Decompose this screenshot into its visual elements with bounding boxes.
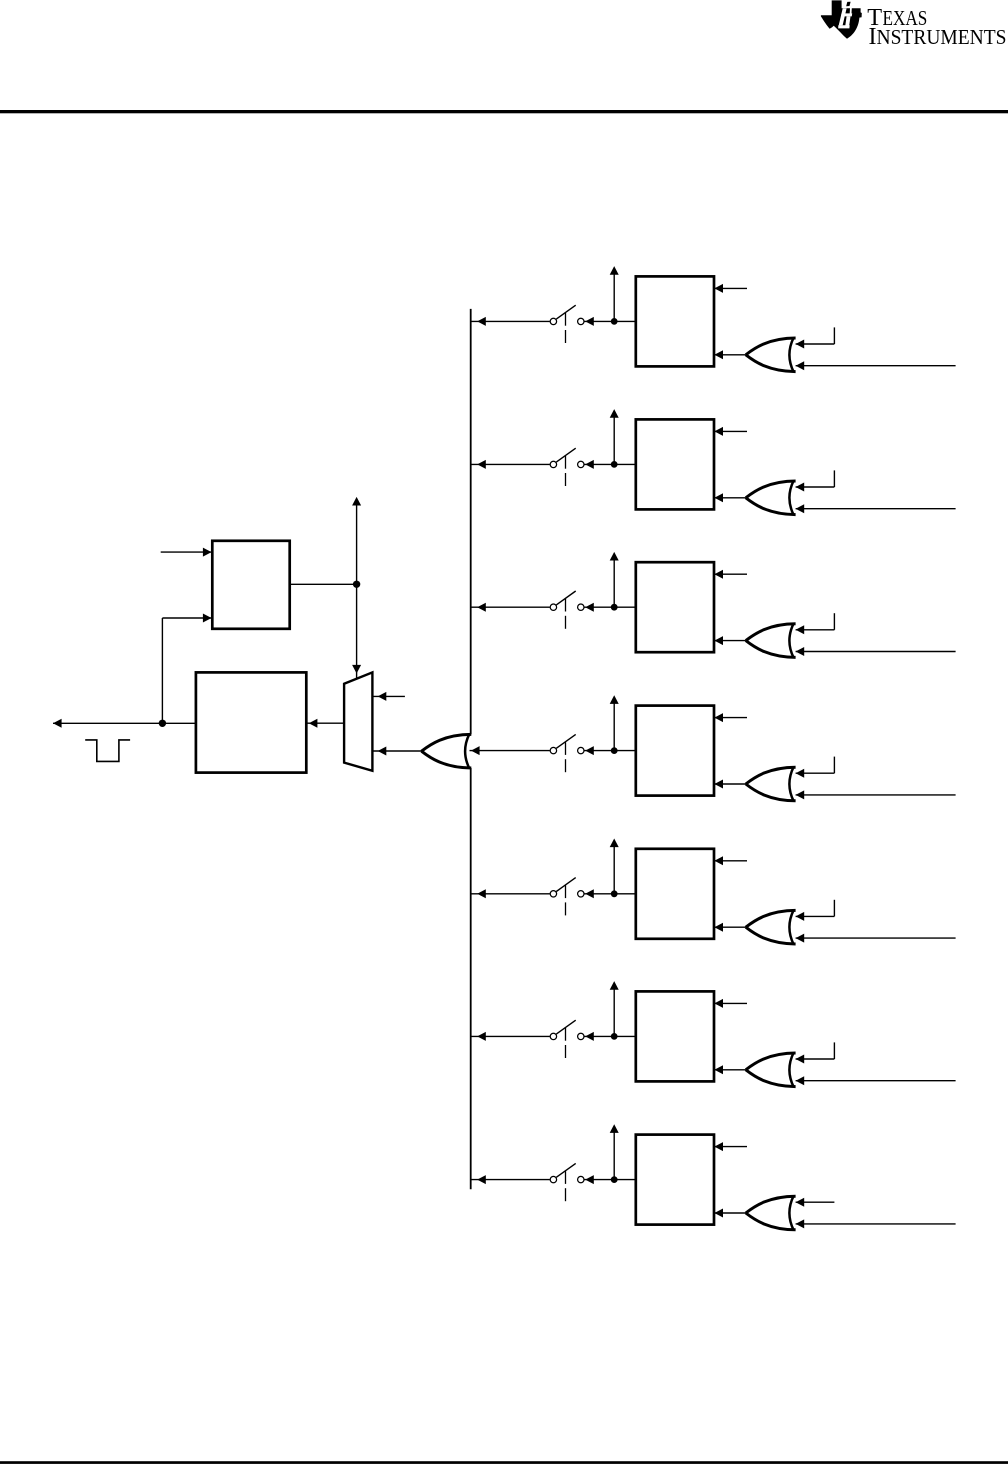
block: row 5 latch [636, 849, 714, 939]
block: row 7 latch [636, 1135, 714, 1225]
wire: row 6 latch output to switch [584, 1035, 635, 1037]
node: row 5 junction dot [611, 890, 618, 897]
wire: row 3 gate input A [796, 629, 835, 631]
switch SW4 contact circle (latch side) [578, 747, 584, 753]
switch SW5 control line (dashed) [565, 885, 567, 898]
wire: row 3 latch output to switch [584, 606, 635, 608]
wire: row 6 line from bus to switch [471, 1035, 550, 1037]
switch SW2 contact circle (latch side) [578, 461, 584, 467]
switch SW6 contact circle (bus side) [550, 1033, 556, 1039]
switch SW6 control line (dashed) [565, 1028, 567, 1041]
switch SW5 lever [556, 878, 575, 892]
footer rule [0, 1461, 1008, 1464]
block: row 4 latch [636, 706, 714, 796]
wire: row 7 gate output into latch [714, 1212, 746, 1214]
wire: row 5 gate input A [796, 915, 835, 917]
switch SW2 contact circle (bus side) [550, 461, 556, 467]
switch SW7 contact circle (latch side) [578, 1176, 584, 1182]
switch SW1 lever [556, 305, 575, 319]
switch SW4 contact circle (bus side) [550, 747, 556, 753]
xor-gate U6 [746, 1053, 796, 1087]
node: row 2 junction dot [611, 461, 618, 468]
wire: row 2 gate output into latch [714, 497, 746, 499]
wire: row 5 line from bus to switch [471, 893, 550, 895]
wire: row 2 riser with up arrow [613, 415, 615, 464]
switch SW7 lever [556, 1163, 575, 1177]
xor-gate U1 [746, 338, 796, 372]
wire: row 1 riser with up arrow [613, 272, 615, 321]
wire: row 2 gate input B (from pin) [796, 508, 956, 510]
pulse waveform symbol [85, 740, 130, 762]
wire: interrupt bus, lower segment [470, 768, 472, 1189]
wire: vertical trunk with up arrow and down arrow into MUX [356, 503, 358, 678]
xor-gate U2 [746, 481, 796, 515]
wire: row 3 gate output into latch [714, 640, 746, 642]
wire: row 5 latch output to switch [584, 893, 635, 895]
node: row 7 junction dot [611, 1176, 618, 1183]
switch SW6 contact circle (latch side) [578, 1033, 584, 1039]
switch SW3 contact circle (latch side) [578, 604, 584, 610]
mux M1 [344, 672, 372, 770]
wire: row 4 latch clock input [714, 717, 747, 719]
node: row 4 junction dot [611, 747, 618, 754]
wire: row 3 gate input B (from pin) [796, 651, 956, 653]
wire: row 1 gate input A [796, 343, 835, 345]
wire: mask register output to trunk [290, 583, 357, 585]
wire: row 2 latch clock input [714, 430, 747, 432]
xor-gate U5 [746, 910, 796, 944]
wire: row 2 gate input A [796, 486, 835, 488]
wire: row 4 gate output into latch [714, 783, 746, 785]
switch SW1 control line (dashed) [565, 313, 567, 326]
switch SW3 lever [556, 591, 575, 605]
wire: row 4 gate input A [796, 772, 835, 774]
wire: INT output line [53, 722, 196, 724]
wire: row 7 gate input B (from pin) [796, 1223, 956, 1225]
wire: row 1 latch clock input [714, 287, 747, 289]
wire: row 4 gate input B (from pin) [796, 794, 956, 796]
wire: row 3 riser with up arrow [613, 558, 615, 607]
wire: row 5 gate output into latch [714, 926, 746, 928]
wire: row 6 gate input B (from pin) [796, 1080, 956, 1082]
switch SW6 lever [556, 1020, 575, 1034]
wire: mask register input 2 (feedback from INT node) [162, 617, 211, 619]
wire: row 3 latch clock input [714, 573, 747, 575]
wire: row 3 line from bus to switch [471, 606, 550, 608]
switch SW5 contact circle (latch side) [578, 891, 584, 897]
wire: row 5 gate input B (from pin) [796, 937, 956, 939]
svg-text:NSTRUMENTS: NSTRUMENTS [877, 27, 1007, 49]
block: row 1 latch [636, 276, 714, 366]
switch SW5 contact circle (bus side) [550, 891, 556, 897]
wire: row 1 gate output into latch [714, 354, 746, 356]
switch SW1 contact circle (bus side) [550, 318, 556, 324]
wire: mux select input [372, 695, 405, 697]
switch SW4 lever [556, 734, 575, 748]
switch SW4 control line (dashed) [565, 742, 567, 755]
switch SW7 control line (dashed) [565, 1171, 567, 1184]
switch SW2 lever [556, 448, 575, 462]
switch SW7 contact circle (bus side) [550, 1176, 556, 1182]
node: row 1 junction dot [611, 318, 618, 325]
xor-gate U4 [746, 767, 796, 801]
wire: mask register input 1 [161, 551, 211, 553]
header rule [0, 110, 1008, 113]
wire: interrupt bus (vertical net), upper segment [470, 309, 472, 734]
wire: row 7 latch clock input [714, 1146, 747, 1148]
wire: row 4 line from bus to switch [470, 750, 550, 752]
wire: row 7 riser with up arrow [613, 1131, 615, 1180]
xor-gate U3 [746, 624, 796, 658]
wire: row 4 riser with up arrow [613, 702, 615, 751]
switch SW2 control line (dashed) [565, 456, 567, 469]
wire: row 6 riser with up arrow [613, 987, 615, 1036]
block: row 6 latch [636, 991, 714, 1081]
wire: mux output into interrupt generator [306, 722, 344, 724]
wire: row 2 line from bus to switch [471, 463, 550, 465]
wire: row 1 latch output to switch [584, 320, 635, 322]
node: row 3 junction dot [611, 604, 618, 611]
switch SW1 contact circle (latch side) [578, 318, 584, 324]
node: INT junction dot [159, 720, 166, 727]
TI logo Texas-map glyph [821, 0, 862, 38]
wire: row 6 latch clock input [714, 1002, 747, 1004]
wire: row 6 gate input A [796, 1058, 835, 1060]
block: row 3 latch [636, 562, 714, 652]
xor-gate U7 [746, 1196, 796, 1230]
node: row 6 junction dot [611, 1033, 618, 1040]
switch SW3 control line (dashed) [565, 599, 567, 612]
wire: row 5 riser with up arrow [613, 845, 615, 894]
wire: row 7 line from bus to switch [471, 1179, 550, 1181]
switch SW3 contact circle (bus side) [550, 604, 556, 610]
block: row 2 latch [636, 419, 714, 509]
wire: row 1 line from bus to switch [471, 320, 550, 322]
wire: OR gate output into mux [372, 750, 421, 752]
svg-text:I: I [869, 24, 877, 50]
wire: row 7 gate input A [796, 1201, 835, 1203]
wire: row 7 latch output to switch [584, 1179, 635, 1181]
node: trunk junction dot [353, 581, 360, 588]
wire: row 5 latch clock input [714, 860, 747, 862]
block: interrupt generator / filter [196, 672, 306, 772]
block: interrupt mask register [212, 541, 289, 629]
wire: row 6 gate output into latch [714, 1069, 746, 1071]
wire: row 4 latch output to switch [584, 750, 635, 752]
wire: row 1 gate input B (from pin) [796, 365, 956, 367]
wire: row 2 latch output to switch [584, 463, 635, 465]
or-gate U8 (interrupt summing OR on bus) [422, 734, 472, 768]
